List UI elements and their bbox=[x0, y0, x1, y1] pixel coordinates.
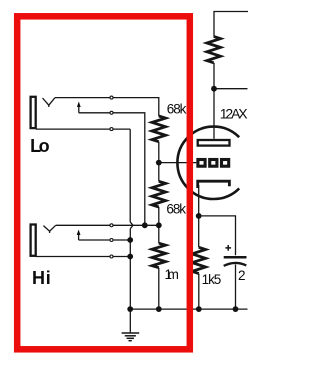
jack J2 Hi tip contact bbox=[43, 225, 55, 233]
wire plate output stub bbox=[214, 88, 248, 90]
terminal J2 ring circle bbox=[110, 239, 113, 242]
wire ground bus upper bbox=[129, 129, 131, 222]
wire R5 to rail bbox=[158, 268, 160, 309]
svg-text:1m: 1m bbox=[165, 267, 179, 282]
wire ground bus lower bbox=[129, 229, 131, 309]
wire ground rail bbox=[130, 308, 247, 310]
terminal J2 tip circle bbox=[110, 224, 113, 227]
wire ground lead bbox=[129, 309, 131, 332]
node J2 ring bus junction bbox=[127, 237, 133, 243]
jack J2 Hi switch contact arrow bbox=[78, 234, 80, 241]
tube U1 12AX7 envelope bbox=[177, 127, 239, 199]
svg-text:68k: 68k bbox=[166, 202, 186, 217]
wire J1 sleeve to ground bus bbox=[36, 128, 131, 130]
tube U1 cathode bbox=[198, 181, 230, 188]
capacitor C1 bottom plate bbox=[224, 263, 247, 266]
wire Lo tip to R2 bbox=[55, 98, 159, 116]
capacitor C1 top plate bbox=[224, 256, 247, 259]
wire cathode junction to capacitor C1 bbox=[199, 216, 236, 255]
node bus rail junction bbox=[127, 306, 133, 312]
node grid junction bbox=[156, 160, 162, 166]
jack J2 Hi body bbox=[31, 225, 36, 256]
wire J1 ring to Hi tip junction bbox=[79, 113, 145, 226]
tube U1 anode plate bbox=[198, 140, 230, 146]
wire C1 to ground rail bbox=[235, 265, 237, 310]
node Hi tip / divider junction bbox=[156, 222, 162, 228]
resistor R3 68k grid stopper bbox=[152, 181, 166, 207]
capacitor C1 polarity + bbox=[225, 245, 231, 251]
wire HT supply feed bbox=[214, 12, 248, 37]
wire R3 to R5 bbox=[158, 207, 160, 243]
jack J1 Lo tip contact bbox=[43, 98, 56, 107]
red annotation frame bbox=[17, 16, 190, 349]
wire J2 sleeve to ground bus bbox=[36, 256, 131, 258]
svg-text:68k: 68k bbox=[167, 101, 187, 116]
wire ground bus hop jog bbox=[130, 222, 133, 229]
wire R4 to rail bbox=[198, 274, 200, 310]
svg-text:12AX: 12AX bbox=[220, 105, 248, 121]
wire R1 bottom to tube plate bbox=[213, 63, 215, 139]
node Lo ring / Hi tip junction bbox=[142, 222, 148, 228]
wire grid lead bbox=[159, 162, 197, 164]
resistor R2 68k grid stopper bbox=[152, 116, 166, 142]
resistor R1 plate load bbox=[207, 36, 221, 62]
node plate junction bbox=[211, 86, 217, 92]
jack J1 Lo body bbox=[31, 97, 36, 128]
resistor R4 1k5 cathode bias bbox=[192, 247, 206, 273]
terminal J1 ring circle bbox=[110, 111, 113, 114]
svg-text:2: 2 bbox=[238, 268, 246, 283]
svg-text:1k5: 1k5 bbox=[202, 272, 222, 287]
node R5 rail junction bbox=[156, 306, 162, 312]
node cathode junction bbox=[196, 213, 202, 219]
wire J2 ring to ground bus bbox=[79, 239, 131, 241]
jack J1 Lo switch contact arrow bbox=[78, 106, 80, 113]
terminal J1 sleeve circle bbox=[110, 128, 113, 131]
ground symbol bbox=[122, 333, 140, 341]
wire cathode lead bbox=[198, 185, 200, 247]
node J2 sleeve bus junction bbox=[127, 254, 133, 260]
tube U1 grid bbox=[198, 160, 229, 167]
wire Hi tip to divider junction bbox=[56, 224, 159, 226]
wire R2 to R3 bbox=[158, 142, 160, 182]
resistor R5 1m grid leak bbox=[152, 243, 166, 268]
terminal Lo tip circle bbox=[110, 96, 113, 99]
node C1 rail junction bbox=[233, 306, 239, 312]
terminal J2 sleeve circle bbox=[110, 255, 113, 258]
node R4 rail junction bbox=[196, 306, 202, 312]
svg-text:Lo: Lo bbox=[30, 136, 49, 156]
svg-text:Hi: Hi bbox=[32, 268, 51, 288]
